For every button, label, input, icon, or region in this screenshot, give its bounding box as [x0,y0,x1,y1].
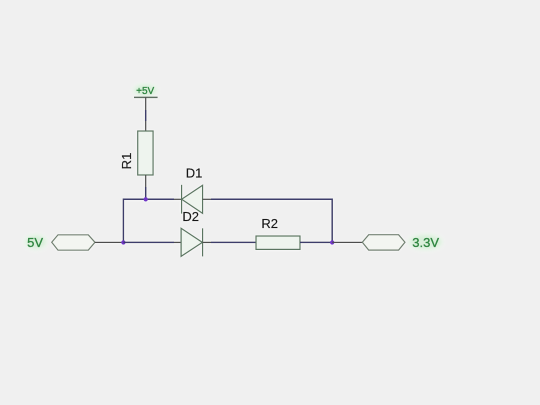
svg-text:+5V: +5V [136,86,154,97]
pin D2 cathode [203,241,211,243]
junction node R1/D1 [144,197,148,201]
label 5V [25,235,47,250]
svg-text:D2: D2 [182,209,199,224]
wire D1 to right vertical [211,199,332,242]
power symbol +5V label [133,84,157,97]
svg-text:R1: R1 [119,153,134,170]
pin R1 bottom [145,175,147,187]
svg-text:5V: 5V [27,235,43,250]
wire D2 to R2 [211,241,256,243]
wire node to D2 [123,241,174,243]
junction node 5V/D2 [121,240,125,244]
wire R1 to node [145,187,147,199]
global label hexagon 3.3V [362,235,405,250]
wire left vertical [123,199,174,242]
wire R2 to node [300,241,332,243]
diode D2 [181,228,203,256]
power symbol pin [145,97,147,110]
pin 5V label [95,241,123,243]
resistor R2 [256,236,300,249]
junction node D1/R2 [330,240,334,244]
global label hexagon 5V [52,235,95,250]
pin R1 top [145,121,147,131]
power symbol +5V bar [134,96,158,98]
svg-text:R2: R2 [261,216,278,231]
label 3.3V [409,234,443,250]
pin D2 anode [174,241,181,243]
wire +5V to R1 [145,110,147,121]
diode D1 [182,185,203,214]
pin D1 cathode [174,198,182,200]
svg-text:3.3V: 3.3V [412,235,439,250]
resistor R1 [138,131,153,175]
svg-text:D1: D1 [186,165,203,180]
pin D1 anode [203,198,211,200]
pin 3.3V label [332,241,362,243]
